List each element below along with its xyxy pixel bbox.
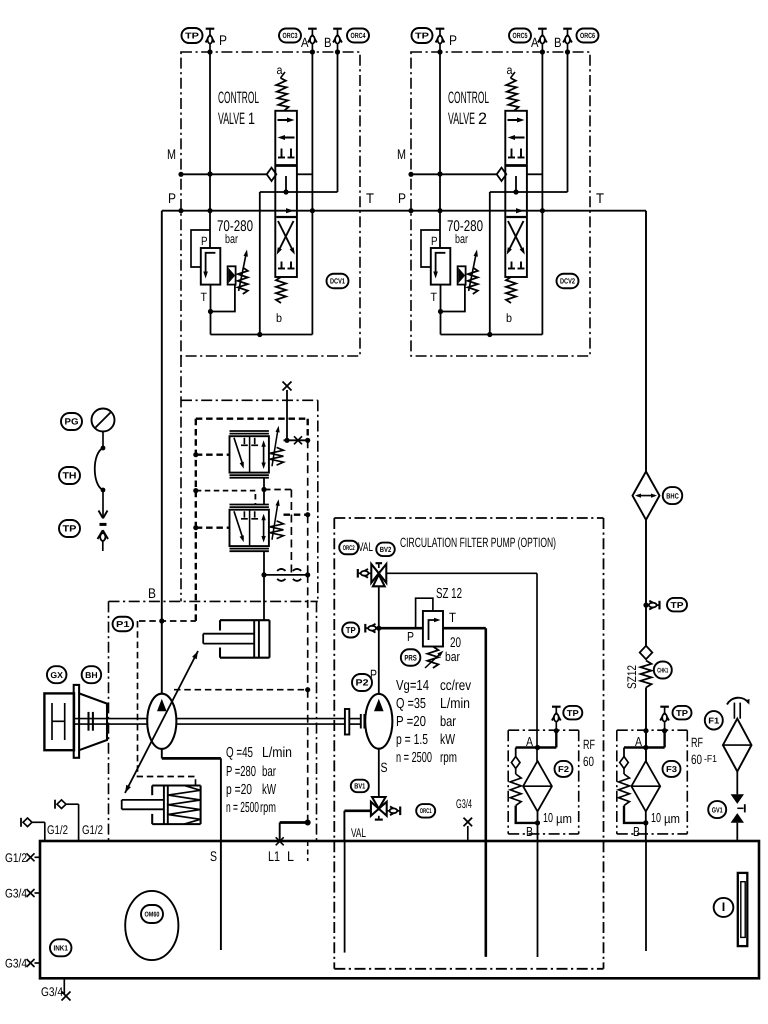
svg-text:VAL: VAL bbox=[358, 540, 373, 554]
svg-text:G1/2: G1/2 bbox=[47, 823, 68, 837]
svg-text:Q =35: Q =35 bbox=[396, 696, 426, 712]
svg-text:L/min: L/min bbox=[262, 745, 292, 761]
svg-text:G3/4: G3/4 bbox=[5, 887, 27, 901]
svg-text:T: T bbox=[449, 610, 456, 625]
svg-text:10: 10 bbox=[651, 810, 661, 825]
svg-text:Q =45: Q =45 bbox=[226, 745, 253, 761]
svg-text:RF: RF bbox=[583, 737, 595, 752]
svg-text:2: 2 bbox=[478, 110, 487, 128]
svg-text:T: T bbox=[366, 190, 374, 206]
svg-text:1: 1 bbox=[248, 110, 255, 128]
svg-text:OM60: OM60 bbox=[145, 912, 160, 919]
svg-text:TP: TP bbox=[63, 524, 77, 534]
svg-text:P: P bbox=[168, 190, 176, 206]
svg-text:A: A bbox=[531, 35, 539, 50]
svg-text:CONTROL: CONTROL bbox=[448, 89, 489, 107]
svg-text:S: S bbox=[210, 848, 217, 864]
svg-text:BV1: BV1 bbox=[354, 782, 365, 791]
svg-text:P: P bbox=[219, 32, 227, 48]
svg-text:T: T bbox=[201, 290, 208, 304]
svg-text:bar: bar bbox=[262, 764, 276, 780]
svg-text:M: M bbox=[397, 146, 406, 162]
svg-text:bar: bar bbox=[440, 714, 456, 730]
svg-text:rpm: rpm bbox=[440, 750, 457, 766]
svg-text:G3/4: G3/4 bbox=[456, 797, 472, 811]
svg-text:P: P bbox=[431, 234, 438, 248]
svg-text:RF: RF bbox=[691, 735, 703, 750]
svg-text:GX: GX bbox=[50, 670, 63, 680]
svg-text:P: P bbox=[201, 234, 208, 248]
svg-text:VAL: VAL bbox=[351, 826, 366, 840]
svg-text:P: P bbox=[398, 190, 406, 206]
svg-text:BH: BH bbox=[85, 670, 98, 680]
svg-text:CHK1: CHK1 bbox=[657, 667, 668, 674]
svg-text:60: 60 bbox=[583, 754, 594, 769]
svg-text:A: A bbox=[301, 35, 309, 50]
svg-text:T: T bbox=[596, 190, 604, 206]
svg-text:b: b bbox=[506, 311, 512, 325]
svg-text:G1/2: G1/2 bbox=[82, 823, 103, 837]
svg-text:n = 2500: n = 2500 bbox=[396, 750, 432, 766]
svg-text:B: B bbox=[633, 824, 640, 839]
svg-text:P: P bbox=[407, 629, 414, 644]
svg-text:G3/4: G3/4 bbox=[41, 985, 63, 999]
svg-text:ORC4: ORC4 bbox=[351, 31, 367, 40]
svg-text:B: B bbox=[526, 824, 533, 839]
svg-text:PRS: PRS bbox=[404, 653, 417, 662]
svg-text:SZ 12: SZ 12 bbox=[436, 586, 462, 602]
svg-text:cc/rev: cc/rev bbox=[440, 678, 472, 694]
svg-text:kW: kW bbox=[262, 782, 276, 798]
svg-text:P: P bbox=[449, 32, 457, 48]
svg-text:M: M bbox=[167, 146, 176, 162]
svg-text:n = 2500: n = 2500 bbox=[226, 800, 259, 816]
svg-text:TP: TP bbox=[676, 708, 688, 718]
svg-text:G3/4: G3/4 bbox=[5, 957, 27, 971]
svg-text:F1: F1 bbox=[708, 715, 719, 725]
svg-text:P2: P2 bbox=[356, 678, 369, 688]
svg-text:B: B bbox=[148, 585, 156, 601]
svg-text:ORC3: ORC3 bbox=[283, 31, 298, 40]
svg-text:B: B bbox=[554, 35, 562, 50]
svg-text:ORC5: ORC5 bbox=[513, 31, 528, 40]
svg-text:VALVE: VALVE bbox=[448, 110, 475, 128]
svg-text:F2: F2 bbox=[558, 764, 569, 774]
svg-text:P1: P1 bbox=[116, 619, 130, 629]
svg-text:10: 10 bbox=[543, 810, 553, 825]
svg-text:µm: µm bbox=[556, 811, 572, 826]
svg-text:BHC: BHC bbox=[666, 491, 679, 500]
svg-text:P =20: P =20 bbox=[396, 714, 426, 730]
svg-text:rpm: rpm bbox=[260, 800, 276, 816]
svg-text:BV2: BV2 bbox=[380, 545, 392, 554]
svg-text:T: T bbox=[431, 290, 438, 304]
svg-text:p =20: p =20 bbox=[226, 782, 252, 798]
svg-text:bar: bar bbox=[445, 649, 461, 664]
svg-text:b: b bbox=[276, 311, 282, 325]
svg-text:VALVE: VALVE bbox=[218, 110, 245, 128]
svg-text:Vg=14: Vg=14 bbox=[396, 678, 429, 694]
svg-text:bar: bar bbox=[455, 232, 468, 246]
svg-text:TP: TP bbox=[185, 31, 199, 41]
svg-text:G1/2: G1/2 bbox=[5, 851, 27, 865]
svg-text:a: a bbox=[507, 63, 513, 77]
svg-text:kW: kW bbox=[440, 732, 455, 748]
svg-text:ORC6: ORC6 bbox=[580, 31, 595, 40]
svg-text:GV1: GV1 bbox=[712, 805, 723, 814]
svg-text:ORC1: ORC1 bbox=[420, 808, 432, 815]
svg-text:SZ12: SZ12 bbox=[625, 665, 639, 689]
svg-text:60: 60 bbox=[691, 752, 702, 767]
svg-text:p = 1.5: p = 1.5 bbox=[396, 732, 428, 748]
svg-text:B: B bbox=[324, 35, 332, 50]
svg-text:CONTROL: CONTROL bbox=[218, 89, 259, 107]
svg-text:PG: PG bbox=[65, 417, 79, 427]
svg-text:TP: TP bbox=[567, 708, 579, 718]
svg-text:DCV2: DCV2 bbox=[560, 277, 575, 286]
svg-text:a: a bbox=[277, 63, 283, 77]
svg-text:A: A bbox=[526, 734, 533, 749]
svg-text:L1: L1 bbox=[268, 848, 280, 864]
svg-text:S: S bbox=[381, 760, 388, 775]
svg-text:L: L bbox=[287, 848, 294, 864]
svg-text:CIRCULATION FILTER PUMP (OPTIO: CIRCULATION FILTER PUMP (OPTION) bbox=[400, 535, 556, 550]
svg-text:P =280: P =280 bbox=[226, 764, 256, 780]
svg-text:TP: TP bbox=[671, 600, 684, 610]
svg-text:DCV1: DCV1 bbox=[330, 277, 345, 286]
svg-text:-F1: -F1 bbox=[704, 754, 717, 765]
svg-text:L/min: L/min bbox=[440, 696, 470, 712]
svg-text:F3: F3 bbox=[666, 764, 677, 774]
svg-text:TP: TP bbox=[415, 31, 429, 41]
svg-text:bar: bar bbox=[225, 232, 238, 246]
svg-text:TH: TH bbox=[63, 471, 77, 481]
svg-text:TP: TP bbox=[346, 625, 356, 635]
svg-text:20: 20 bbox=[450, 634, 461, 650]
svg-text:A: A bbox=[635, 734, 642, 749]
svg-text:ORC2: ORC2 bbox=[343, 545, 355, 552]
svg-text:INK1: INK1 bbox=[53, 944, 68, 953]
svg-text:µm: µm bbox=[664, 811, 680, 826]
